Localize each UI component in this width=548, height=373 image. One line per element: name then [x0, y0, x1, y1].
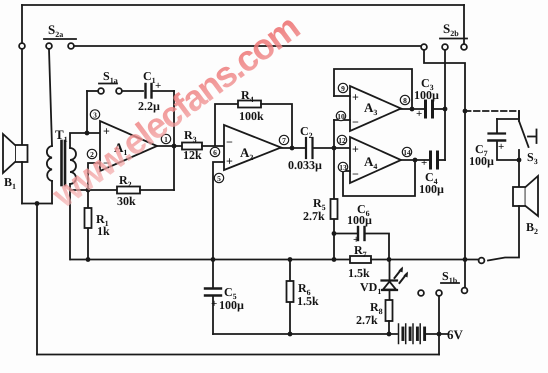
capacitor C3: [426, 101, 446, 117]
label C7: [469, 141, 504, 168]
capacitor C6: [334, 227, 389, 260]
svg-text:−: −: [226, 135, 233, 149]
wire A1 - input: [88, 163, 100, 190]
speaker B2: [513, 176, 538, 216]
label S3: [527, 150, 538, 166]
switch S2a: [19, 39, 76, 49]
svg-text:30k: 30k: [117, 194, 136, 208]
label C4: [419, 157, 444, 196]
main ground rail: [71, 259, 350, 261]
svg-text:100µ: 100µ: [419, 182, 444, 196]
resistor R7: [350, 256, 478, 263]
svg-text:1.5k: 1.5k: [297, 294, 319, 308]
switch S1b: [418, 283, 467, 296]
wire B2 bottom to connector: [488, 206, 519, 261]
wire B1 bottom: [21, 162, 23, 204]
label R7: [348, 243, 370, 280]
wire S2b middle drop: [444, 51, 446, 161]
op-amp A1: [100, 121, 157, 171]
svg-text:S1b: S1b: [442, 269, 458, 285]
svg-text:C2: C2: [300, 124, 313, 140]
pin 3: [90, 110, 99, 119]
label C5: [211, 285, 244, 312]
pin 9: [338, 83, 347, 92]
svg-text:B2: B2: [526, 220, 538, 236]
svg-text:100µ: 100µ: [347, 213, 372, 227]
svg-text:C1: C1: [143, 69, 156, 85]
svg-text:3: 3: [93, 111, 97, 120]
LED VD1: [382, 260, 407, 301]
label R5: [303, 196, 326, 223]
node A1 output junction: [172, 144, 177, 149]
label R2: [117, 173, 136, 208]
wire A2 + input to pin5 line: [213, 162, 224, 260]
resistor R4 feedback: [215, 101, 292, 149]
wire C1 right down to A1 output node: [173, 91, 175, 190]
node A1 minus junction: [86, 188, 91, 193]
pin 1: [161, 134, 170, 143]
wire top border: [22, 4, 464, 6]
label 6V: [447, 327, 464, 342]
capacitor C2: [306, 138, 350, 158]
resistor R1: [85, 190, 92, 260]
svg-text:−: −: [352, 167, 359, 181]
label B1: [4, 175, 16, 191]
wire secondary bottom: [69, 184, 71, 260]
pin 14: [402, 147, 411, 156]
pin 5: [214, 173, 223, 182]
svg-text:100µ: 100µ: [469, 154, 494, 168]
wire S2a middle contact to T1 primary: [49, 50, 52, 147]
label B2: [526, 220, 538, 236]
capacitor C7: [489, 119, 520, 160]
resistor R2: [88, 187, 174, 194]
svg-text:1.5k: 1.5k: [348, 266, 370, 280]
svg-text:+: +: [421, 157, 427, 169]
svg-text:12: 12: [338, 136, 346, 145]
pin 2: [87, 149, 96, 158]
svg-text:+: +: [498, 141, 504, 153]
wire A3 output: [401, 108, 424, 110]
wire dashed link to phones: [465, 110, 519, 112]
svg-text:7: 7: [282, 136, 286, 145]
label R1: [96, 212, 110, 238]
svg-text:6V: 6V: [447, 327, 464, 342]
transformer T1: [47, 141, 76, 204]
label T1: [55, 127, 68, 144]
T1 core: [60, 141, 63, 185]
battery 6V: [399, 324, 448, 344]
wire S2a to S2b long link: [75, 45, 421, 47]
wire A2 output: [281, 147, 305, 149]
svg-text:VD1: VD1: [360, 280, 381, 296]
svg-text:+: +: [226, 154, 233, 168]
node A4 plus junction: [332, 146, 337, 151]
T1 secondary coil: [70, 148, 76, 184]
svg-text:R3: R3: [184, 128, 197, 144]
svg-text:S1a: S1a: [103, 69, 118, 85]
wire secondary top to A1 + input: [70, 133, 100, 148]
label S1a: [103, 69, 118, 85]
label S2b: [443, 21, 459, 38]
svg-text:2.7k: 2.7k: [303, 209, 325, 223]
pin 6: [210, 147, 219, 156]
svg-text:10: 10: [337, 112, 345, 121]
pin 8: [400, 95, 409, 104]
svg-text:T1: T1: [55, 127, 68, 144]
svg-text:2.7k: 2.7k: [356, 313, 378, 327]
svg-text:R7: R7: [354, 243, 367, 259]
svg-text:13: 13: [339, 163, 347, 172]
svg-text:B1: B1: [4, 175, 16, 191]
wire battery plus vertical: [438, 334, 440, 355]
resistor R6: [287, 260, 294, 335]
wire A4 - input and feedback: [343, 160, 415, 196]
svg-text:9: 9: [341, 84, 345, 93]
speaker B1: [3, 134, 28, 173]
label S1b: [442, 269, 458, 285]
wire left rail down: [36, 204, 38, 355]
pin 12: [337, 135, 346, 144]
svg-text:S2a: S2a: [48, 22, 63, 39]
capacitor C1: [146, 84, 175, 98]
resistor R8: [386, 300, 393, 334]
label R8: [356, 300, 383, 327]
svg-text:100µ: 100µ: [219, 298, 244, 312]
wire A3 feedback loop top: [334, 69, 412, 109]
node B2 connector: [479, 258, 485, 264]
svg-text:+: +: [352, 90, 359, 104]
wire A4 output: [401, 159, 429, 161]
label VD1: [360, 280, 381, 296]
switch S2b: [421, 39, 467, 50]
svg-text:+: +: [416, 108, 422, 120]
node pin3 junction: [85, 131, 90, 136]
svg-text:+: +: [352, 142, 359, 156]
switch S3: [519, 111, 537, 187]
label C3: [414, 76, 439, 120]
wire A3 - input: [334, 119, 350, 121]
switch S1a: [87, 84, 143, 94]
resistor R5: [331, 148, 338, 260]
capacitor C4: [431, 152, 446, 168]
label R6: [297, 281, 319, 308]
label S2a: [48, 22, 63, 39]
wire right bus to S1b: [464, 260, 466, 288]
op-amp A4: [350, 137, 401, 183]
label R3: [183, 128, 202, 162]
resistor R3: [182, 143, 224, 150]
wire A3 + input: [334, 95, 350, 97]
svg-text:14: 14: [403, 148, 411, 157]
svg-text:100µ: 100µ: [414, 88, 439, 102]
op-amp A2: [224, 125, 281, 170]
pin 10: [336, 111, 345, 120]
pin 13: [338, 162, 347, 171]
label C1: [138, 69, 161, 113]
svg-text:1k: 1k: [97, 224, 110, 238]
capacitor C5: [205, 260, 221, 335]
svg-text:S2b: S2b: [443, 21, 459, 38]
svg-text:5: 5: [217, 174, 221, 183]
svg-text:6: 6: [213, 148, 217, 157]
svg-text:R4: R4: [241, 88, 254, 104]
wire pin3 node up to S1a: [86, 91, 88, 133]
svg-text:8: 8: [403, 96, 407, 105]
label C6: [347, 202, 372, 246]
label C2: [288, 124, 322, 172]
svg-text:+: +: [211, 298, 217, 310]
svg-text:S3: S3: [527, 150, 538, 166]
node B1/ground junction: [35, 201, 40, 206]
wire left drop to B1: [21, 5, 23, 145]
op-amp A3: [350, 86, 401, 131]
svg-text:12k: 12k: [183, 148, 202, 162]
wire battery negative line: [213, 333, 397, 335]
pin 7: [279, 135, 288, 144]
wire right drop to S2b right contact: [463, 5, 465, 44]
svg-text:0.033µ: 0.033µ: [288, 158, 322, 172]
svg-text:+: +: [155, 80, 161, 92]
wire A1 output: [157, 145, 182, 147]
svg-text:100k: 100k: [239, 109, 264, 123]
wire S2b left contact jog to right bus: [424, 51, 465, 260]
svg-text:−: −: [352, 115, 359, 129]
label R4: [239, 88, 264, 123]
T1 primary coil: [47, 146, 52, 181]
wire bottom rail: [37, 354, 439, 356]
